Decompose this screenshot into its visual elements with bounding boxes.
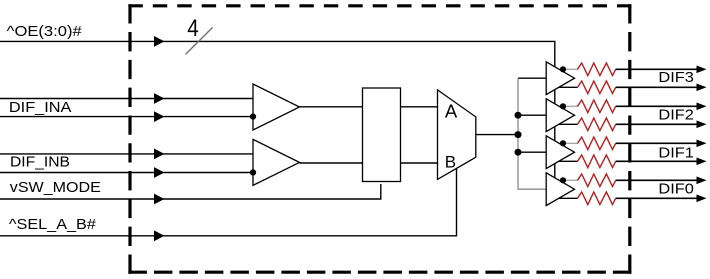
svg-text:DIF3: DIF3 [658, 69, 694, 86]
svg-text:DIF2: DIF2 [658, 107, 694, 124]
svg-text:DIF_INA: DIF_INA [9, 99, 72, 116]
svg-text:4: 4 [187, 15, 199, 42]
svg-text:^OE(3:0)#: ^OE(3:0)# [7, 23, 83, 40]
svg-text:DIF_INB: DIF_INB [10, 154, 70, 171]
svg-text:vSW_MODE: vSW_MODE [10, 179, 101, 196]
svg-text:A: A [445, 101, 458, 122]
svg-text:B: B [445, 153, 456, 172]
svg-text:DIF0: DIF0 [658, 181, 694, 198]
svg-text:DIF1: DIF1 [658, 144, 694, 161]
svg-text:^SEL_A_B#: ^SEL_A_B# [9, 216, 97, 233]
